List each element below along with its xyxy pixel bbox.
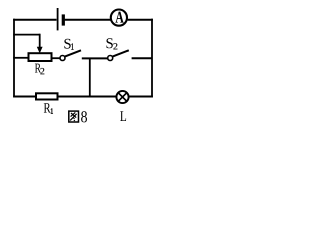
wire left rail to R2 [13, 57, 27, 59]
switch S2 contact circle [108, 56, 113, 61]
battery long plate (positive) [57, 8, 59, 30]
figure caption number 8 [81, 111, 87, 122]
rheostat R2 box [29, 53, 52, 61]
wire ammeter to right rail [128, 19, 153, 21]
lamp cross stroke 1 [119, 93, 127, 101]
wire R2 to switch S1 [53, 57, 61, 59]
label R1 [44, 103, 51, 112]
lamp L circle [116, 91, 128, 103]
lamp cross stroke 2 [119, 93, 127, 101]
wire top-left from left rail to battery [13, 19, 56, 21]
label R2 [35, 64, 41, 73]
ammeter A circle [111, 10, 127, 26]
ammeter label A [115, 12, 123, 23]
wire R1 to lamp [58, 96, 116, 98]
label S1 [64, 39, 70, 49]
label S2 [106, 38, 112, 48]
wire rheostat wiper arm vertical [39, 34, 41, 48]
wire S2 fixed contact to right rail [132, 57, 152, 59]
resistor R1 box [36, 93, 58, 99]
rheostat wiper arrowhead [37, 47, 43, 54]
battery short thick plate (negative) [62, 14, 65, 25]
wire left rail vertical [13, 19, 15, 98]
switch S2 lever [113, 50, 129, 56]
wire right rail vertical [151, 19, 153, 98]
wire node M down to bottom wire [89, 58, 91, 96]
wire S1 fixed contact to node M [82, 57, 108, 59]
wire lamp to right rail [129, 96, 153, 98]
wire bottom-left from left rail to R1 [13, 96, 36, 98]
label L [120, 111, 126, 121]
switch S1 contact circle [60, 56, 65, 61]
figure caption character tu (drawn) box [69, 111, 79, 122]
wire rheostat wiper arm horizontal [13, 34, 40, 36]
wire battery to ammeter [65, 19, 111, 21]
figure caption tu inner strokes [71, 112, 76, 116]
switch S1 lever [65, 50, 81, 56]
